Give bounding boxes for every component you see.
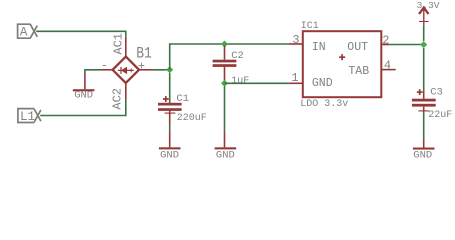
bridge rectifier B1 diamond <box>113 57 139 83</box>
capacitor C1 bottom pin <box>169 111 171 123</box>
bridge AC2 pin stub <box>125 83 127 99</box>
wire C3 to GND <box>423 112 425 140</box>
supply pin cross <box>419 21 429 23</box>
ground GND2 bar <box>159 147 181 149</box>
svg-text:TAB: TAB <box>348 65 369 78</box>
ground GND4 bar <box>413 148 435 150</box>
wire C2 junction to IC pin 1 <box>225 82 289 84</box>
capacitor C2 bottom pin <box>224 67 226 81</box>
capacitor C1 pin cross <box>165 112 176 114</box>
supply 3.3V arrow <box>419 8 428 14</box>
svg-text:AC1: AC1 <box>111 33 125 55</box>
IC plus mark <box>339 54 345 60</box>
connector L1 <box>18 109 41 123</box>
svg-text:IC1: IC1 <box>301 21 319 32</box>
capacitor C3 bottom pin <box>423 107 425 112</box>
wire junction down to C3 <box>423 48 425 92</box>
wire pin 2 to junction <box>389 44 423 46</box>
ground GND3 pin <box>224 131 226 147</box>
ground GND1 pin <box>84 74 86 90</box>
wire A to bridge AC1 <box>36 31 126 37</box>
svg-text:3.3V: 3.3V <box>417 0 440 11</box>
svg-text:L1: L1 <box>20 110 35 124</box>
svg-text:GND: GND <box>160 149 179 161</box>
svg-text:A: A <box>20 26 28 40</box>
ground GND2 pin <box>169 131 171 147</box>
svg-text:GND: GND <box>74 90 93 102</box>
junction C2 bottom <box>221 80 228 87</box>
IC pin 2 stub <box>381 44 389 46</box>
svg-text:3: 3 <box>292 33 299 47</box>
wire junction down to C1 <box>169 73 171 102</box>
junction C2 top <box>221 41 228 48</box>
svg-text:1: 1 <box>291 71 298 85</box>
IC pin 1 stub <box>289 82 303 84</box>
connector A <box>18 24 38 38</box>
op IC1 regulator box <box>303 31 382 97</box>
wire C2 junction down to GND <box>224 86 226 131</box>
svg-text:AC2: AC2 <box>111 88 125 110</box>
svg-text:GND: GND <box>413 149 432 161</box>
capacitor C1 plus mark <box>163 96 169 102</box>
wire AC2 to L1 <box>40 99 126 116</box>
svg-text:LDO 3.3v: LDO 3.3v <box>300 99 348 110</box>
capacitor C3 plus mark <box>417 89 423 95</box>
capacitor C3 pin cross <box>418 110 429 112</box>
wire junction up and right to IC pin 3 <box>170 44 289 70</box>
svg-text:IN: IN <box>312 41 326 54</box>
svg-text:22uF: 22uF <box>428 110 452 121</box>
capacitor C2 top pin <box>224 46 226 60</box>
ground GND4 pin <box>423 140 425 148</box>
wire supply to junction <box>423 26 425 42</box>
bridge plus pin stub <box>139 69 153 71</box>
svg-text:GND: GND <box>312 77 333 90</box>
bridge AC1 pin stub <box>125 37 127 57</box>
IC pin 3 stub <box>289 43 303 45</box>
wire bridge plus to junction <box>153 69 170 71</box>
junction output rail <box>420 41 427 48</box>
bridge minus pin stub <box>102 69 113 71</box>
capacitor C3 top pin <box>423 92 425 99</box>
supply pin stem <box>423 9 425 26</box>
svg-text:OUT: OUT <box>347 41 368 54</box>
ground GND3 bar <box>215 147 237 149</box>
capacitor C3 plates <box>412 99 436 102</box>
wire C1 to GND <box>169 123 171 131</box>
capacitor C2 plates <box>213 60 237 63</box>
junction at bridge plus <box>166 66 173 73</box>
capacitor C1 plates <box>158 103 182 106</box>
ground GND1 bar <box>73 89 95 91</box>
IC pin 4 stub <box>381 69 395 71</box>
svg-text:+: + <box>138 59 145 73</box>
svg-text:C3: C3 <box>430 87 443 99</box>
svg-text:2: 2 <box>382 33 389 47</box>
svg-text:1uF: 1uF <box>231 76 249 87</box>
svg-text:GND: GND <box>216 149 235 161</box>
svg-text:220uF: 220uF <box>177 113 207 124</box>
svg-text:C2: C2 <box>231 50 244 62</box>
svg-text:C1: C1 <box>176 93 189 105</box>
bridge B1 diode glyph <box>118 67 134 74</box>
wire bridge minus to GND <box>85 70 102 74</box>
capacitor C1 top pin <box>169 102 171 103</box>
